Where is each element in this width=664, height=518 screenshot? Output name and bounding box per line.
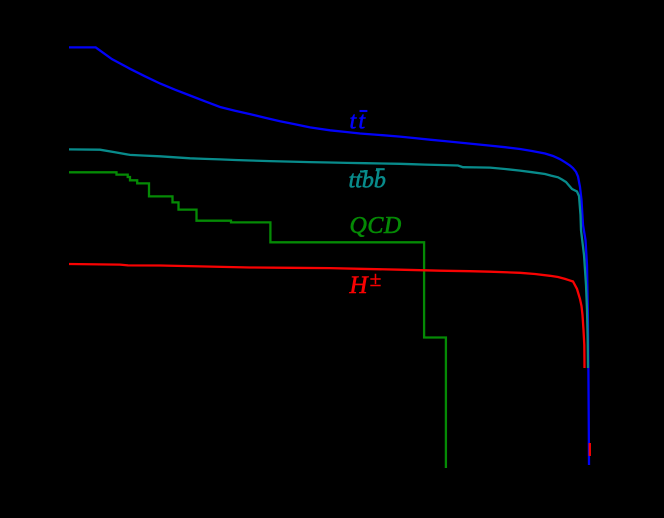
curve ttbb (teal)	[69, 149, 588, 368]
svg-text:H: H	[349, 272, 370, 299]
svg-text:ttbb: ttbb	[349, 168, 386, 194]
curve QCD (green staircase)	[69, 172, 446, 468]
curve Hpm (red)	[69, 264, 585, 368]
svg-text:±: ±	[370, 267, 382, 291]
curve ttbar (blue)	[69, 47, 589, 465]
svg-text:QCD: QCD	[350, 213, 402, 239]
curve Hpm tail segment (red, at bottom right)	[589, 443, 591, 456]
svg-text:tt: tt	[350, 109, 367, 135]
